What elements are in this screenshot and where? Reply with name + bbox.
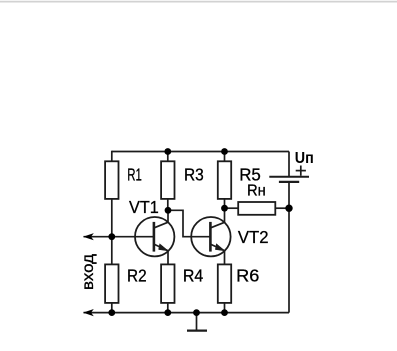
wire R6 bottom lead	[224, 303, 226, 313]
svg-text:R3: R3	[184, 164, 204, 184]
node dot bottom R2	[108, 309, 115, 316]
svg-text:вход: вход	[80, 253, 97, 290]
node dot top R5	[221, 148, 228, 155]
svg-text:R5: R5	[239, 164, 261, 184]
wire ground stem	[196, 313, 198, 331]
wire R1 top lead	[111, 151, 113, 162]
wire VT1 emitter lead	[167, 250, 169, 264]
resistor R3	[161, 161, 174, 199]
wire top rail	[112, 151, 289, 153]
battery GB1 minus plate	[279, 181, 299, 183]
resistor R6	[218, 264, 231, 303]
resistor R1	[105, 161, 118, 199]
node dot ground	[193, 309, 200, 316]
transistor VT2	[191, 217, 230, 256]
wire battery top lead	[288, 152, 290, 177]
node dot top R3	[164, 148, 171, 155]
svg-text:Uп: Uп	[295, 150, 314, 167]
wire R2 top lead	[111, 237, 113, 265]
svg-text:VT2: VT2	[238, 227, 269, 247]
battery GB1 plus plate	[269, 176, 309, 178]
svg-text:R4: R4	[183, 266, 204, 286]
resistor R5	[218, 161, 231, 199]
node dot bottom R6	[221, 309, 228, 316]
arrow input bottom	[83, 309, 94, 316]
wire VT2 emitter lead	[224, 250, 226, 264]
wire R5 top lead	[224, 152, 226, 162]
wire R4 bottom lead	[167, 303, 169, 313]
plus sign	[296, 166, 306, 176]
wire VT1 collector node to VT2 base	[168, 210, 210, 236]
node dot bottom R4	[164, 309, 171, 316]
wire VT1 collector lead	[167, 210, 169, 223]
resistor R2	[105, 264, 118, 303]
resistor R4	[161, 264, 174, 303]
wire input to VT1 base	[84, 236, 154, 238]
wire R1 bottom to input node	[111, 199, 113, 237]
node dot VT2 collector	[221, 205, 228, 212]
node dot input	[108, 233, 115, 240]
wire R2 bottom lead	[111, 303, 113, 313]
wire battery bottom lead	[288, 182, 290, 313]
wire R3 bottom lead	[167, 199, 169, 211]
arrow input top	[83, 233, 94, 240]
wire R5 bottom lead	[224, 199, 226, 209]
wire R3 top lead	[167, 152, 169, 162]
svg-text:VT1: VT1	[129, 197, 159, 217]
node dot VT1 collector	[165, 207, 172, 214]
wire Rn right lead	[275, 207, 289, 209]
top border line	[0, 1, 397, 3]
resistor Rn body	[238, 202, 275, 215]
wire VT2 collector lead	[224, 208, 226, 223]
transistor VT1	[135, 217, 174, 256]
node dot Rn right	[285, 205, 292, 212]
svg-text:R1: R1	[127, 164, 142, 184]
wire Rn left lead	[225, 207, 239, 209]
svg-text:R2: R2	[127, 266, 147, 286]
svg-text:R6: R6	[236, 266, 259, 286]
wire bottom rail	[84, 312, 290, 314]
ground	[187, 330, 207, 332]
svg-text:Rн: Rн	[247, 183, 266, 200]
